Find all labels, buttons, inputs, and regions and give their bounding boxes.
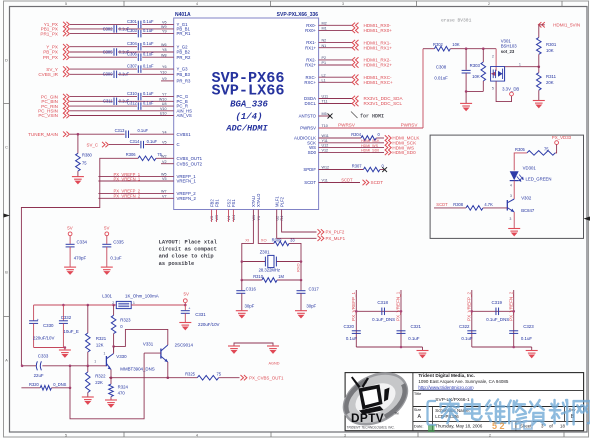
svg-text:PX_VREFN_1: PX_VREFN_1 [114,176,141,181]
wire Y_PX to C304 [70,46,137,48]
svg-text:Thursday, May 18, 2006: Thursday, May 18, 2006 [435,424,483,429]
svg-text:R301: R301 [546,42,557,47]
svg-text:W4: W4 [232,215,236,221]
svg-text:V302: V302 [521,195,532,200]
svg-text:B: B [5,271,8,275]
svg-text:4: 4 [196,2,198,6]
capacitor C334 [69,236,71,244]
svg-text:RXO: RXO [296,263,301,272]
svg-text:1: 1 [104,352,106,356]
svg-text:SCDT: SCDT [371,180,384,185]
svg-text:22uF: 22uF [34,373,44,378]
svg-text:W1: W1 [252,215,256,221]
capacitor C310 [137,93,139,101]
capacitor C301 [137,21,139,29]
svg-text:4.7K: 4.7K [484,202,493,207]
svg-text:TRIDENT TECHNOLOGIES, INC.: TRIDENT TECHNOLOGIES, INC. [347,425,395,429]
svg-text:5V: 5V [184,292,189,297]
svg-text:for HDMI: for HDMI [360,113,384,119]
capacitor C305 [113,48,115,56]
svg-text:0.1uF: 0.1uF [461,336,473,341]
wire [69,366,71,388]
svg-text:RX3V1_DDC_SCL: RX3V1_DDC_SCL [364,101,403,106]
svg-text:V9: V9 [162,77,167,81]
svg-text:D: D [5,59,8,63]
box LED indicator [430,135,583,238]
ground [267,346,279,353]
svg-text:CVBS1: CVBS1 [177,132,192,137]
junction [77,133,80,136]
svg-text:SVP-LX66: SVP-LX66 [212,82,285,100]
ground [72,177,84,184]
svg-text:C322: C322 [459,324,470,329]
svg-text:PR_R3: PR_R3 [177,79,191,84]
svg-text:PB_B3: PB_B3 [177,72,191,77]
capacitor C313 [125,130,127,138]
svg-text:3: 3 [510,217,512,221]
svg-text:0.1uF: 0.1uF [147,139,158,144]
svg-text:XTALO: XTALO [256,193,261,207]
svg-text:U2: U2 [275,216,279,221]
svg-text:PR1_PX: PR1_PX [40,31,58,36]
junction [465,47,468,50]
capacitor C302 [113,25,115,33]
svg-text:C304: C304 [127,41,138,46]
node PX_CVBS_OUT1 [219,377,240,379]
wire [514,153,527,171]
svg-text:0.1uF: 0.1uF [346,336,358,341]
wire PC_HSIN direct [70,110,174,112]
svg-text:0.1uF: 0.1uF [143,28,154,33]
wire collector [113,346,115,353]
svg-text:SVP-PXLX66_336: SVP-PXLX66_336 [277,12,319,18]
svg-text:1M: 1M [278,274,284,279]
capacitor C311 [113,98,115,106]
svg-text:ANTSTO: ANTSTO [299,114,317,119]
node PX_VREFP_1 [98,176,173,178]
svg-text:0.1uF: 0.1uF [143,101,154,106]
svg-text:C309: C309 [103,72,114,77]
capacitor C309 [113,71,115,79]
svg-text:PX_PLF2: PX_PLF2 [326,230,345,235]
svg-text:R324: R324 [118,385,129,390]
svg-text:AIN_VS: AIN_VS [177,113,192,118]
svg-text:470: 470 [118,391,126,396]
resistor R325 [197,375,218,380]
svg-text:VD301: VD301 [523,165,537,170]
ground [59,350,71,357]
svg-text:3.3V_DB: 3.3V_DB [502,86,519,91]
svg-text:Y_PX: Y_PX [46,44,58,49]
ground [295,311,307,318]
svg-text:C: C [5,146,8,150]
svg-text:P2: P2 [322,56,327,60]
wire SV_C [109,144,140,146]
svg-text:0.1uF: 0.1uF [143,91,154,96]
svg-text:30pF: 30pF [245,304,255,309]
svg-text:2: 2 [492,55,494,59]
capacitor C331 [184,305,186,310]
capacitor C316 [241,280,243,290]
svg-text:HDMI1_RX0+: HDMI1_RX0+ [364,28,393,33]
wire [118,28,174,30]
junction [87,304,90,307]
svg-text:DPTV: DPTV [351,411,384,425]
svg-text:U10: U10 [160,112,167,116]
svg-text:28.322MHz: 28.322MHz [259,268,280,273]
svg-text:1K_Ohm_100mA: 1K_Ohm_100mA [125,294,159,299]
svg-text:M2: M2 [322,21,327,25]
capacitor C332 [62,305,64,320]
wire [142,105,174,107]
svg-text:HDMI1_5VIN: HDMI1_5VIN [553,23,580,28]
wire [142,33,174,35]
svg-text:W9: W9 [161,25,167,29]
wire [538,54,540,66]
svg-text:PLF2: PLF2 [279,196,284,207]
node PX_PLF2 [282,210,317,233]
wire [142,56,174,58]
wire [555,145,556,153]
svg-text:R308: R308 [453,202,464,207]
svg-text:M1: M1 [322,27,327,31]
capacitor C303 [137,30,139,37]
svg-text:TUNER_MAIN: TUNER_MAIN [28,132,58,137]
svg-text:R303: R303 [470,63,481,68]
svg-text:4: 4 [196,434,198,438]
wire PC_BIN to C311 [70,100,113,102]
wire [131,304,185,306]
wire [466,90,483,92]
wire emitter [167,362,169,378]
junction [465,90,468,93]
ground [526,351,538,358]
svg-text:PX_VD33: PX_VD33 [552,135,572,140]
svg-text:10uF_E: 10uF_E [63,329,78,334]
svg-text:220uF/10V: 220uF/10V [33,336,55,341]
wire [142,96,174,98]
svg-text:L2: L2 [322,73,326,77]
svg-text:R306: R306 [126,152,137,157]
svg-text:18: 18 [560,424,565,429]
svg-text:C: C [177,142,180,147]
svg-text:XI: XI [245,238,249,243]
junction [538,65,541,68]
resistor R323 [113,305,115,315]
wire emitter [513,212,515,229]
wire base rail [42,365,106,367]
junction [241,279,244,282]
svg-text:C333: C333 [38,353,49,358]
svg-text:HDMI_WS: HDMI_WS [361,144,379,148]
capacitor C330 [33,305,35,320]
op-amp U -- main IC N401A SVP-PXLX66_336 outline [174,18,319,210]
svg-text:VREFN_2: VREFN_2 [177,196,197,201]
svg-text:RX0+: RX0+ [305,28,316,33]
capacitor C307 [137,65,139,73]
svg-text:2SC9014: 2SC9014 [175,342,194,347]
svg-text:PX_VREFP_1: PX_VREFP_1 [351,291,356,321]
svg-text:R322: R322 [95,374,106,379]
svg-text:3: 3 [344,434,346,438]
svg-text:W7: W7 [161,190,167,194]
svg-text:C308: C308 [436,64,447,69]
wire [538,90,540,100]
capacitor C333 [22,365,36,367]
wire [513,181,515,199]
svg-text:C335: C335 [113,240,124,245]
wire PC_GIN to C310 [70,96,137,98]
wire CVBS_OUT1 to buffer [21,158,138,365]
svg-text:0.1uF: 0.1uF [138,128,149,133]
node HDMI1_5VIN [538,22,544,27]
svg-text:A: A [418,414,422,420]
svg-text:75: 75 [82,161,87,166]
svg-text:C334: C334 [77,240,88,245]
svg-text:2: 2 [488,2,490,6]
node PX_VREFN_2 [98,197,173,199]
resistor R321 [87,305,89,333]
junction [300,260,303,263]
wire [142,68,174,70]
resistor R311 [537,73,542,91]
junction [87,365,90,368]
node PX_VREF left column [471,290,473,347]
svg-text:C331: C331 [195,312,206,317]
wire base [144,352,161,354]
svg-text:W11: W11 [322,134,329,138]
svg-text:C305: C305 [103,49,114,54]
svg-text:C306: C306 [127,52,138,57]
svg-text:LAYOUT: Place xtal: LAYOUT: Place xtal [159,240,218,246]
resistor R307 [363,167,380,172]
svg-text:R310: R310 [253,274,264,279]
svg-text:Title: Title [414,391,422,396]
svg-text:PWRSV: PWRSV [401,123,419,128]
svg-text:C314: C314 [130,139,141,144]
svg-text:Sheet: Sheet [520,424,532,429]
wire XTALO to R309 [258,210,274,244]
wire PR1_PX to C303 [70,33,137,35]
svg-text:HDMI1_RXC+: HDMI1_RXC+ [364,80,394,85]
svg-text:R311: R311 [546,74,557,79]
svg-text:30pF: 30pF [306,304,316,309]
wire [118,100,174,102]
svg-text:sot_23: sot_23 [501,49,515,54]
wire collector loop to V331 [114,329,168,346]
svg-text:C319: C319 [492,300,503,305]
svg-text:P1: P1 [322,61,327,65]
svg-text:SCDT: SCDT [436,202,448,207]
svg-text:0.01uF: 0.01uF [434,75,448,80]
svg-text:HDMI1_RX1+: HDMI1_RX1+ [364,45,393,50]
wire [472,346,532,348]
ground [417,351,429,358]
ground [105,400,117,407]
svg-text:SD0: SD0 [308,150,317,155]
svg-text:A: A [5,359,8,363]
wire stub [211,210,213,223]
ground [64,267,76,274]
svg-text:PX_CVBS_OUT1: PX_CVBS_OUT1 [249,376,284,381]
svg-text:V331: V331 [143,341,154,346]
svg-text:12K: 12K [96,342,104,347]
resistor R306 [156,157,174,159]
svg-text:1: 1 [519,62,521,66]
svg-text:LED_GREEN: LED_GREEN [526,176,552,181]
wire Y1_PX to C301 [70,23,137,25]
svg-text:0.1uF: 0.1uF [143,41,154,46]
resistor R308 [466,206,483,211]
wire [539,25,545,38]
svg-text:22K: 22K [95,380,103,385]
svg-text:circuit as compact: circuit as compact [159,247,217,253]
svg-text:W5: W5 [161,173,167,177]
wire PC_VSIN direct [70,115,174,117]
svg-text:1: 1 [94,360,96,364]
svg-text:T11: T11 [322,100,328,104]
svg-text:Y10: Y10 [160,70,167,74]
svg-text:R304: R304 [351,132,362,137]
svg-text:R302: R302 [433,42,444,47]
svg-text:DSCL: DSCL [305,101,317,106]
wire PB_PX to C305 [70,51,113,53]
ground [508,229,520,236]
wire stub PR_R3 pin [161,80,174,82]
capacitor C312 [137,102,139,110]
resistor R301 [537,38,542,55]
svg-text:L301: L301 [102,294,112,299]
svg-text:V2: V2 [162,160,167,164]
wire [450,48,496,50]
svg-text:2: 2 [112,301,114,305]
svg-text:C320: C320 [344,324,355,329]
wire drain [505,66,539,68]
note for HDMI [351,112,358,119]
wire stub [232,210,234,223]
svg-text:V3: V3 [210,216,214,221]
svg-text:BGA_336: BGA_336 [230,100,268,110]
wire [34,347,65,349]
wire stub [216,210,218,223]
svg-text:C316: C316 [246,287,257,292]
ground [179,323,191,330]
svg-text:1090 East Arques Ave. Sunnyva: 1090 East Arques Ave. Sunnyvale, CA 9408… [418,379,508,384]
svg-text:C313: C313 [115,128,126,133]
capacitor C306 [137,53,139,61]
capacitor C318 [356,310,401,312]
junction [62,304,65,307]
svg-text:(1/4): (1/4) [235,112,262,122]
svg-text:V12: V12 [322,149,329,153]
node PX_VREFN_1 [98,180,173,182]
svg-text:0.1uF: 0.1uF [143,64,154,69]
svg-text:VREFN_1: VREFN_1 [177,179,197,184]
svg-text:HDMI1_RX2+: HDMI1_RX2+ [364,63,393,68]
svg-text:Y_G2: Y_G2 [177,44,189,49]
wire PB1_PX to C302 [70,28,113,30]
svg-text:BC847: BC847 [521,208,535,213]
svg-text:PR_R2: PR_R2 [177,55,191,60]
svg-text:C302: C302 [103,26,114,31]
svg-text:FB1: FB1 [214,199,219,207]
svg-text:RX1+: RX1+ [305,45,316,50]
svg-text:C332: C332 [61,315,72,320]
svg-text:C321: C321 [411,324,422,329]
capacitor C321 [397,330,406,332]
svg-text:U11: U11 [322,95,329,99]
svg-text:R307: R307 [352,163,363,168]
svg-text:PX_VREFN_2: PX_VREFN_2 [508,291,513,321]
svg-text:N401A: N401A [175,12,191,18]
svg-text:C311: C311 [103,99,113,104]
capacitor C335 [106,236,108,244]
svg-text:C307: C307 [127,64,138,69]
wire AGND bracket [234,343,273,346]
svg-text:HDMI_SD0: HDMI_SD0 [392,150,416,155]
svg-text:PX_VREFP_2: PX_VREFP_2 [467,291,472,321]
svg-text:0_DNS: 0_DNS [53,382,66,387]
svg-text:5: 5 [65,434,67,438]
ground [82,397,94,404]
svg-text:C323: C323 [523,324,534,329]
node PX_MLF1 [277,210,317,239]
junction [64,346,67,349]
svg-text:5: 5 [492,87,494,91]
ground [533,101,545,108]
svg-text:FS1: FS1 [231,199,236,207]
capacitor C314 [140,141,142,149]
svg-text:0.1uF: 0.1uF [143,19,154,24]
svg-text:PX_VREFN_1: PX_VREFN_1 [396,291,401,321]
svg-text:C317: C317 [309,287,320,292]
wire PWRSV riser [422,49,424,128]
svg-text:XO: XO [261,238,267,243]
svg-text:SPDIF: SPDIF [303,167,316,172]
svg-text:10K: 10K [546,48,554,53]
svg-text:R4: R4 [280,216,284,221]
svg-text:C318: C318 [377,300,388,305]
wire PC_RIN to C312 [70,105,137,107]
junction [110,376,113,379]
svg-text:5V: 5V [67,226,72,231]
wire TUNER_MAIN [70,133,125,135]
svg-text:PR_PX: PR_PX [43,55,58,60]
svg-text:PX_VREFN_2: PX_VREFN_2 [114,194,141,199]
svg-text:U12: U12 [322,144,329,148]
svg-text:Y9: Y9 [162,30,167,34]
resistor R324 [110,378,112,384]
svg-text:C312: C312 [127,101,138,106]
ground [460,103,472,110]
wire stub [228,210,230,223]
svg-text:T10: T10 [322,124,328,128]
junction [184,304,187,307]
svg-text:220uF/10V: 220uF/10V [198,322,220,327]
svg-text:M5: M5 [322,112,327,116]
wire CVBS_IR to C309 [70,73,113,75]
svg-text:CVBS_OUT2: CVBS_OUT2 [177,161,203,166]
svg-text:0.1uF: 0.1uF [408,336,420,341]
svg-text:Y8: Y8 [162,48,167,52]
wire [130,133,174,135]
svg-text:R305: R305 [515,147,526,152]
wire source to 3.3V_DB [496,81,511,102]
junction [112,345,115,348]
svg-text:V330: V330 [116,354,127,359]
junction [69,387,72,390]
wire [356,346,422,348]
